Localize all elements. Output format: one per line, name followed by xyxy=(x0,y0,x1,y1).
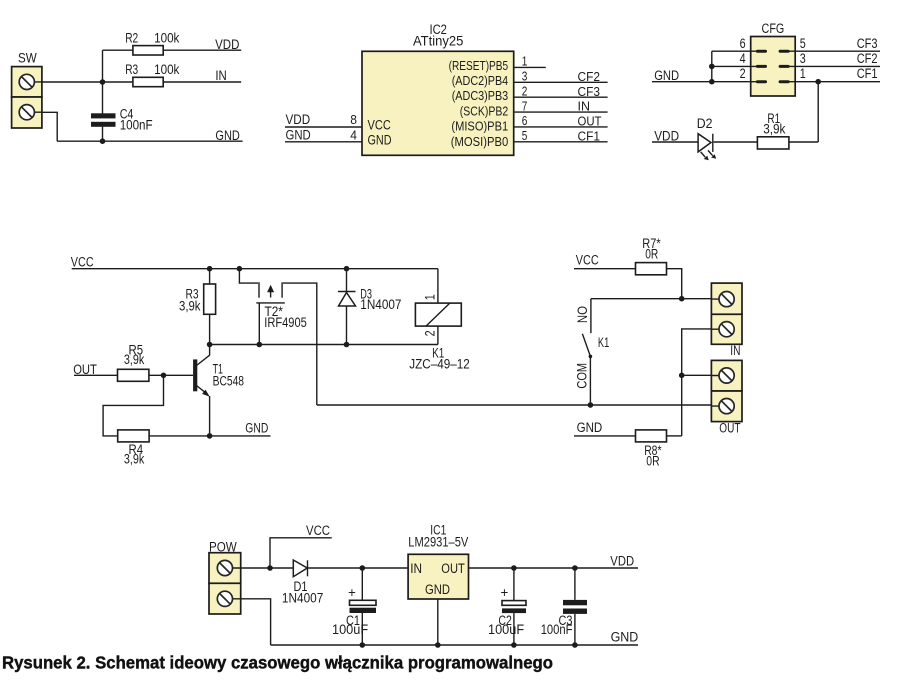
svg-text:(ADC3)PB3: (ADC3)PB3 xyxy=(452,88,509,103)
svg-text:POW: POW xyxy=(209,540,237,555)
svg-text:3,9k: 3,9k xyxy=(763,121,785,136)
svg-text:GND: GND xyxy=(425,582,450,597)
svg-text:GND: GND xyxy=(368,132,392,147)
svg-text:IRF4905: IRF4905 xyxy=(264,315,307,330)
svg-text:(RESET)PB5: (RESET)PB5 xyxy=(449,58,509,73)
svg-text:3,9k: 3,9k xyxy=(124,352,145,367)
svg-text:GND: GND xyxy=(245,420,268,435)
svg-text:+: + xyxy=(501,585,509,600)
svg-text:JZC–49–12: JZC–49–12 xyxy=(409,356,470,371)
svg-text:GND: GND xyxy=(286,127,311,142)
svg-text:6: 6 xyxy=(522,113,528,128)
svg-text:GND: GND xyxy=(654,68,679,83)
svg-text:CF2: CF2 xyxy=(578,69,601,84)
svg-text:GND: GND xyxy=(611,630,639,645)
svg-text:+: + xyxy=(348,585,356,600)
svg-text:4: 4 xyxy=(740,51,746,66)
svg-text:ATtiny25: ATtiny25 xyxy=(413,34,464,49)
svg-text:VDD: VDD xyxy=(215,37,240,52)
svg-text:OUT: OUT xyxy=(719,420,740,435)
svg-text:6: 6 xyxy=(740,36,746,51)
svg-text:Rysunek 2. Schemat ideowy czas: Rysunek 2. Schemat ideowy czasowego włąc… xyxy=(2,653,553,673)
svg-text:100uF: 100uF xyxy=(332,622,368,637)
svg-text:VCC: VCC xyxy=(576,253,599,268)
svg-text:GND: GND xyxy=(215,128,240,143)
svg-text:IN: IN xyxy=(730,343,740,358)
svg-text:OUT: OUT xyxy=(73,362,97,377)
svg-text:VCC: VCC xyxy=(368,117,392,132)
svg-text:CFG: CFG xyxy=(762,21,785,36)
svg-text:3: 3 xyxy=(522,69,528,84)
svg-text:5: 5 xyxy=(800,36,806,51)
svg-text:1N4007: 1N4007 xyxy=(282,590,323,605)
svg-text:1: 1 xyxy=(423,294,438,300)
svg-text:CF3: CF3 xyxy=(857,36,878,51)
svg-text:VDD: VDD xyxy=(610,553,634,568)
svg-text:IN: IN xyxy=(578,99,591,114)
svg-text:(MOSI)PB0: (MOSI)PB0 xyxy=(451,134,508,149)
svg-text:(ADC2)PB4: (ADC2)PB4 xyxy=(452,73,509,88)
svg-text:1N4007: 1N4007 xyxy=(360,297,401,312)
svg-text:D2: D2 xyxy=(697,116,713,131)
svg-text:LM2931–5V: LM2931–5V xyxy=(408,534,468,549)
svg-text:NO: NO xyxy=(575,306,590,323)
svg-text:BC548: BC548 xyxy=(213,373,244,388)
svg-text:IN: IN xyxy=(215,68,226,83)
svg-text:2: 2 xyxy=(522,84,528,99)
svg-text:1: 1 xyxy=(800,66,806,81)
svg-text:R3: R3 xyxy=(125,62,138,77)
svg-text:(MISO)PB1: (MISO)PB1 xyxy=(451,119,508,134)
svg-text:8: 8 xyxy=(350,112,357,127)
svg-text:SW: SW xyxy=(18,50,37,65)
svg-text:CF1: CF1 xyxy=(857,66,878,81)
svg-text:7: 7 xyxy=(522,98,528,113)
svg-text:100nF: 100nF xyxy=(120,117,153,132)
svg-text:3,9k: 3,9k xyxy=(179,298,201,313)
svg-text:VCC: VCC xyxy=(71,254,94,269)
svg-text:CF2: CF2 xyxy=(857,51,878,66)
svg-text:K1: K1 xyxy=(598,335,609,350)
svg-text:0R: 0R xyxy=(645,247,658,262)
svg-text:R2: R2 xyxy=(125,30,138,45)
svg-text:1: 1 xyxy=(522,54,528,69)
svg-text:GND: GND xyxy=(577,420,603,435)
svg-text:3: 3 xyxy=(800,51,806,66)
svg-text:100uF: 100uF xyxy=(488,622,524,637)
svg-text:OUT: OUT xyxy=(578,114,602,129)
svg-text:IN: IN xyxy=(410,561,422,576)
svg-text:VDD: VDD xyxy=(654,129,679,144)
svg-text:CF1: CF1 xyxy=(578,128,601,143)
svg-text:(SCK)PB2: (SCK)PB2 xyxy=(460,103,508,118)
svg-text:100nF: 100nF xyxy=(541,622,573,637)
svg-text:4: 4 xyxy=(350,127,357,142)
svg-text:OUT: OUT xyxy=(441,561,465,576)
svg-text:100k: 100k xyxy=(154,30,180,45)
svg-text:2: 2 xyxy=(740,66,746,81)
svg-text:0R: 0R xyxy=(646,453,660,468)
svg-text:5: 5 xyxy=(522,128,528,143)
svg-text:100k: 100k xyxy=(154,62,180,77)
svg-text:3,9k: 3,9k xyxy=(124,451,145,466)
svg-text:COM: COM xyxy=(575,363,590,389)
svg-text:CF3: CF3 xyxy=(578,84,601,99)
svg-text:VCC: VCC xyxy=(306,523,330,538)
svg-text:VDD: VDD xyxy=(286,112,311,127)
svg-text:2: 2 xyxy=(423,330,438,336)
